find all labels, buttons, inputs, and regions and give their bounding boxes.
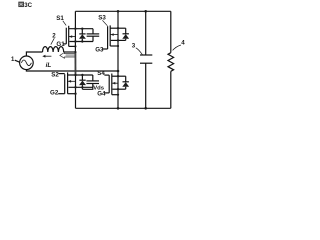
wire: AC bottom terminal return to leg B midpoint <box>26 69 118 71</box>
svg-text:1: 1 <box>11 57 15 63</box>
svg-text:iL: iL <box>46 62 52 69</box>
svg-text:G3: G3 <box>95 46 104 53</box>
svg-text:S4: S4 <box>97 70 105 77</box>
label 2 <box>52 32 56 39</box>
figure title 図3C <box>19 2 33 9</box>
gate lead G1 <box>63 43 67 45</box>
label S1 <box>56 15 64 22</box>
diode D2 (anti-parallel on S2) <box>79 75 86 89</box>
label 3 <box>132 42 136 49</box>
pointer line S1 <box>63 21 66 26</box>
load resistor 4 <box>168 11 174 108</box>
svg-text:4: 4 <box>181 40 185 47</box>
diode D1 (anti-parallel on S1) <box>79 29 86 42</box>
label 4 <box>181 40 185 47</box>
junction dots S4 + AC return + rails <box>117 10 147 110</box>
lead S2 <box>59 73 65 75</box>
left leg wire (S1 drain to rail, S1-S2 midpoint, S2 source to rail) <box>74 11 76 52</box>
node label 1 (AC source) <box>11 57 15 63</box>
lead S4 <box>104 74 109 76</box>
svg-text:G4: G4 <box>97 90 106 97</box>
body stub with arrow <box>69 36 75 38</box>
pointer curve for label 3 <box>136 48 143 55</box>
svg-text:G2: G2 <box>50 90 59 97</box>
gate bar <box>65 28 67 44</box>
AC source V1 <box>20 56 34 70</box>
right leg wire <box>117 11 119 108</box>
svg-text:3C: 3C <box>24 2 32 9</box>
label G2 <box>50 90 59 97</box>
hollow current arrow at node A <box>60 53 76 59</box>
svg-text:3: 3 <box>132 42 136 49</box>
transistor S4 <box>109 74 126 95</box>
current arrow iL <box>45 55 52 57</box>
label G1 <box>56 41 65 48</box>
DC link capacitor 3 <box>140 11 152 108</box>
label S3 <box>98 15 106 22</box>
junction dots S3 <box>117 27 119 47</box>
svg-text:G1: G1 <box>56 41 65 48</box>
diode/cap return line <box>70 41 94 43</box>
pointer line for label 2 <box>51 38 55 44</box>
pointer line for label 1 <box>15 60 20 62</box>
label S2 <box>51 71 59 78</box>
svg-text:S2: S2 <box>51 71 59 78</box>
label G4 <box>97 90 106 97</box>
drain stub <box>69 28 93 30</box>
pointer curve for label 4 <box>173 45 181 50</box>
junction dots S1 <box>74 28 83 54</box>
gate lead G3 <box>102 48 107 50</box>
source stub <box>69 45 76 47</box>
gate lead G4 <box>104 92 109 94</box>
transistor S2 <box>65 72 93 93</box>
channel bar <box>68 26 70 47</box>
label Vds <box>93 86 105 92</box>
snubber capacitor on S1 <box>87 29 100 42</box>
wire: AC top terminal up to inductor <box>26 52 42 56</box>
label G3 <box>95 46 104 53</box>
snubber capacitor on S2 (Vds) <box>82 75 99 89</box>
label S4 <box>97 70 105 77</box>
diode D4 (anti-parallel on S4) <box>118 76 129 89</box>
bottom rail (DC-) <box>76 107 171 109</box>
transistor S1 <box>66 26 93 47</box>
wire: inductor to node A (leg midpoint) <box>64 51 76 53</box>
pointer line S3 <box>102 20 107 26</box>
inductor 2 <box>43 47 64 52</box>
diode D3 (anti-parallel on S3) <box>118 28 129 40</box>
transistor S3 <box>108 25 126 49</box>
top rail (DC+) <box>75 10 170 12</box>
junction dots S2 <box>74 74 83 95</box>
gate lead G2 <box>58 93 64 95</box>
